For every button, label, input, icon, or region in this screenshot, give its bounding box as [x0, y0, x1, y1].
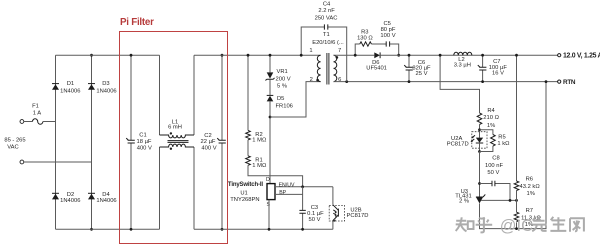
capacitor C1: [130, 55, 132, 229]
svg-text:FR106: FR106: [276, 104, 293, 110]
IC U1 TinySwitch: [267, 184, 275, 200]
core: [327, 53, 329, 85]
diode D4: [88, 194, 95, 200]
svg-text:PC817D: PC817D: [447, 142, 469, 148]
diode D3: [88, 84, 95, 90]
svg-text:C3: C3: [311, 205, 318, 211]
svg-text:1 A: 1 A: [33, 111, 42, 117]
svg-text:C1: C1: [139, 133, 146, 139]
svg-text:85 - 265: 85 - 265: [4, 138, 25, 144]
TL431 U3: [476, 197, 483, 203]
svg-text:Pi Filter: Pi Filter: [120, 17, 154, 28]
TL431 ref wire: [481, 199, 517, 201]
svg-text:R4: R4: [487, 108, 495, 114]
svg-text:3.3 µH: 3.3 µH: [454, 63, 471, 69]
svg-text:1%: 1%: [527, 191, 535, 197]
light arrows U2B: [333, 210, 336, 215]
svg-text:1: 1: [309, 48, 312, 54]
optocoupler U2A: [472, 132, 487, 149]
output terminal RTN: [558, 80, 561, 83]
capacitor C6: [408, 55, 410, 81]
svg-text:130 Ω: 130 Ω: [357, 36, 373, 42]
light arrows U2A: [471, 135, 475, 141]
svg-text:50 V: 50 V: [487, 170, 499, 176]
svg-text:1 MΩ: 1 MΩ: [252, 138, 267, 144]
svg-text:7: 7: [338, 48, 341, 54]
svg-text:2 %: 2 %: [459, 198, 469, 204]
svg-text:TinySwitch-II: TinySwitch-II: [228, 182, 263, 188]
diode D2: [52, 194, 59, 200]
primary phase dot: [316, 79, 319, 82]
secondary winding: [334, 55, 337, 81]
optocoupler U2B: [332, 187, 334, 205]
wire secondary top to rail: [334, 54, 375, 56]
resistor R7: [514, 212, 519, 221]
svg-text:F1: F1: [32, 104, 39, 110]
svg-text:D5: D5: [277, 96, 284, 102]
diode D5: [269, 79, 271, 95]
svg-text:R3: R3: [361, 29, 368, 35]
resistor R2: [247, 55, 249, 130]
inductor L1 common mode choke: [160, 55, 195, 229]
wire D5 to drain: [269, 101, 271, 183]
svg-text:VR1: VR1: [277, 69, 288, 75]
capacitor C5: [386, 41, 389, 46]
feedback tap wire: [440, 55, 479, 113]
svg-text:T1: T1: [323, 32, 330, 38]
primary winding: [317, 55, 320, 81]
svg-text:250 VAC: 250 VAC: [315, 15, 338, 21]
wire bridge left branch: [55, 55, 57, 229]
svg-text:C4: C4: [323, 2, 331, 8]
svg-text:1N4006: 1N4006: [96, 89, 116, 95]
svg-text:22 µF: 22 µF: [201, 139, 216, 145]
wire drain to transformer: [270, 82, 321, 117]
secondary phase dot: [336, 56, 339, 59]
wire secondary bottom / RTN rail: [334, 81, 558, 83]
svg-text:12.0 V, 1.25 A: 12.0 V, 1.25 A: [563, 52, 600, 59]
wire top rail left: [56, 54, 160, 56]
wire fuse lead: [24, 121, 33, 123]
svg-text:1 kΩ: 1 kΩ: [497, 141, 510, 147]
capacitor C7: [482, 55, 484, 81]
svg-text:1%: 1%: [487, 123, 495, 129]
capacitor C3: [302, 187, 304, 230]
resistor R3: [360, 42, 372, 46]
resistor R5: [480, 130, 493, 152]
node bridge bottom: [90, 228, 93, 231]
svg-text:R7: R7: [526, 208, 533, 214]
svg-text:U1: U1: [240, 191, 247, 197]
svg-text:50 V: 50 V: [309, 217, 321, 223]
diode D6: [374, 52, 380, 58]
diode D1: [52, 84, 59, 90]
svg-text:TNY268PN: TNY268PN: [230, 197, 259, 203]
svg-text:100 nF: 100 nF: [485, 163, 504, 169]
svg-text:2: 2: [310, 77, 313, 83]
wire EN: [275, 186, 333, 188]
AC input terminal N: [20, 160, 24, 164]
TL431 anode wire: [480, 82, 547, 229]
svg-text:EN/UV: EN/UV: [279, 182, 295, 188]
svg-text:1N4006: 1N4006: [60, 198, 80, 204]
svg-text:16 V: 16 V: [492, 71, 504, 77]
wire S pin to bottom rail: [268, 200, 270, 230]
AC input terminal L: [20, 120, 24, 124]
svg-text:E20/10/6 (...: E20/10/6 (...: [312, 40, 344, 46]
svg-text:43.2 kΩ: 43.2 kΩ: [520, 184, 541, 190]
wire R1 to EN: [248, 165, 303, 187]
svg-text:400 V: 400 V: [137, 146, 152, 152]
svg-text:100 V: 100 V: [380, 33, 395, 39]
resistor R1: [247, 140, 249, 156]
capacitor C8: [480, 184, 511, 201]
svg-text:1N4006: 1N4006: [60, 89, 80, 95]
wire top rail mid: [194, 54, 321, 56]
svg-text:210 Ω: 210 Ω: [483, 115, 499, 121]
snubber R3 C5: [355, 44, 399, 55]
svg-text:BP: BP: [279, 190, 286, 196]
resistor R6: [514, 181, 519, 190]
wire bottom rail left: [56, 228, 160, 230]
watermark zhihu: [456, 217, 584, 233]
svg-text:6 mH: 6 mH: [168, 125, 182, 131]
svg-text:VAC: VAC: [7, 145, 19, 151]
svg-text:D3: D3: [102, 81, 109, 87]
resistor R4: [477, 113, 482, 125]
wire bridge right branch: [91, 55, 93, 229]
svg-text:1 MΩ: 1 MΩ: [252, 163, 267, 169]
svg-text:RTN: RTN: [563, 79, 576, 86]
wire BP: [275, 193, 303, 195]
wire neutral to bridge: [24, 161, 92, 163]
svg-text:R6: R6: [526, 177, 533, 183]
svg-text:200 V: 200 V: [276, 77, 291, 83]
svg-text:R5: R5: [498, 134, 505, 140]
svg-text:2.2 nF: 2.2 nF: [318, 8, 335, 14]
wire LED to TL431: [479, 152, 481, 197]
node bridge top: [90, 54, 93, 57]
svg-text:D1: D1: [67, 81, 74, 87]
Pi Filter red box: [120, 32, 228, 244]
zener VR1: [269, 55, 271, 72]
capacitor C2: [221, 55, 223, 229]
svg-text:UF5401: UF5401: [366, 65, 387, 71]
svg-text:1N4006: 1N4006: [96, 198, 116, 204]
wire fuse to bridge: [43, 121, 56, 123]
svg-text:400 V: 400 V: [201, 145, 216, 151]
svg-text:D: D: [266, 177, 270, 183]
svg-text:18 µF: 18 µF: [137, 139, 152, 145]
svg-text:PC817D: PC817D: [347, 213, 369, 219]
svg-text:25 V: 25 V: [416, 71, 428, 77]
divider wire: [516, 55, 518, 228]
inductor L2: [454, 52, 472, 55]
fuse F1: [33, 119, 43, 124]
wire bottom rail mid: [194, 228, 333, 230]
svg-text:5 %: 5 %: [277, 84, 287, 90]
svg-text:C8: C8: [492, 155, 499, 161]
node drain tee: [269, 116, 272, 119]
svg-text:@IC: @IC: [500, 217, 533, 235]
output terminal 12V: [558, 54, 561, 57]
